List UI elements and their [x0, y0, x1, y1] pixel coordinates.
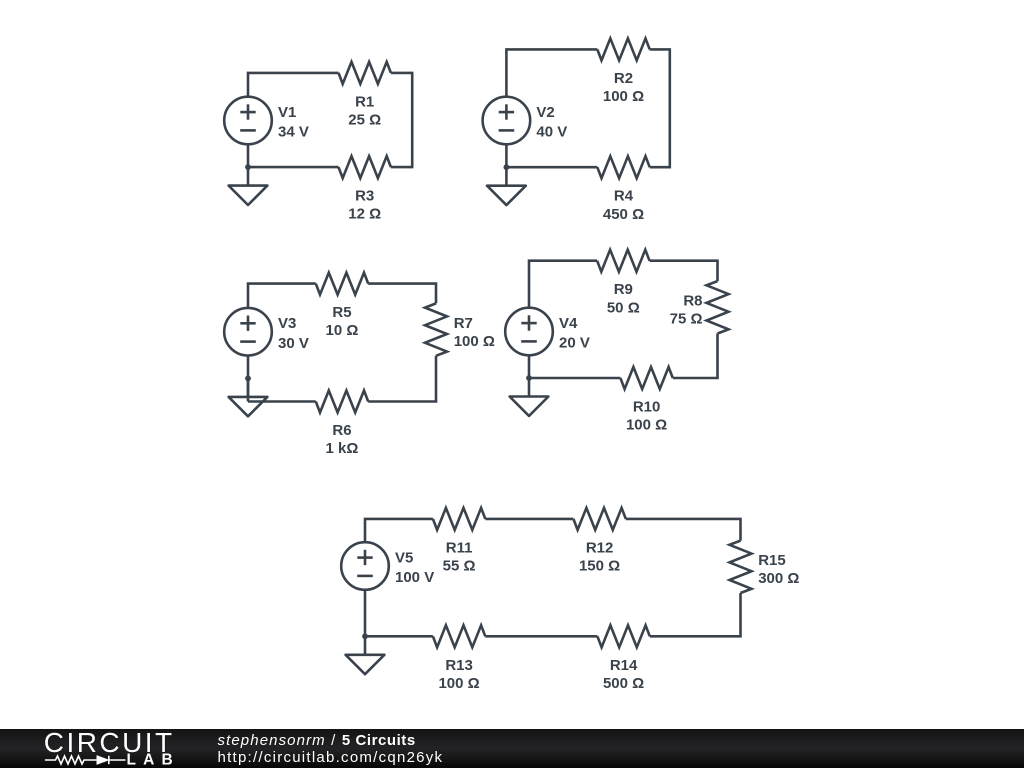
- svg-text:V4: V4: [559, 315, 578, 332]
- svg-text:R14: R14: [610, 657, 638, 674]
- svg-text:12 Ω: 12 Ω: [348, 206, 381, 223]
- svg-text:R3: R3: [355, 188, 374, 205]
- svg-text:300 Ω: 300 Ω: [758, 570, 799, 587]
- svg-text:R15: R15: [758, 552, 786, 569]
- svg-text:450 Ω: 450 Ω: [603, 206, 644, 223]
- svg-text:100 Ω: 100 Ω: [626, 417, 667, 434]
- svg-text:http://circuitlab.com/cqn26yk: http://circuitlab.com/cqn26yk: [218, 749, 444, 766]
- svg-text:R12: R12: [586, 539, 614, 556]
- svg-text:75 Ω: 75 Ω: [670, 311, 703, 328]
- svg-text:R11: R11: [446, 539, 473, 556]
- svg-text:10 Ω: 10 Ω: [326, 322, 359, 339]
- svg-text:55 Ω: 55 Ω: [443, 558, 476, 575]
- svg-text:R1: R1: [355, 93, 374, 110]
- svg-text:R8: R8: [683, 293, 702, 310]
- svg-text:V1: V1: [278, 104, 296, 121]
- svg-text:500 Ω: 500 Ω: [603, 675, 644, 692]
- svg-text:20 V: 20 V: [559, 335, 590, 352]
- svg-text:R2: R2: [614, 70, 633, 87]
- svg-text:V2: V2: [536, 104, 554, 121]
- svg-text:R13: R13: [445, 657, 473, 674]
- svg-text:100 V: 100 V: [395, 569, 434, 586]
- svg-text:25 Ω: 25 Ω: [348, 112, 381, 129]
- svg-text:150 Ω: 150 Ω: [579, 558, 620, 575]
- svg-text:34 V: 34 V: [278, 124, 309, 141]
- svg-text:R7: R7: [454, 315, 473, 332]
- svg-text:R10: R10: [633, 399, 661, 416]
- svg-text:R4: R4: [614, 188, 634, 205]
- svg-text:100 Ω: 100 Ω: [603, 88, 644, 105]
- svg-text:R6: R6: [332, 422, 351, 439]
- svg-text:R5: R5: [332, 304, 351, 321]
- svg-text:1 kΩ: 1 kΩ: [326, 440, 359, 457]
- svg-text:100 Ω: 100 Ω: [454, 333, 495, 350]
- svg-text:R9: R9: [614, 281, 633, 298]
- svg-text:stephensonrm / 5 Circuits: stephensonrm / 5 Circuits: [218, 732, 416, 749]
- svg-text:V5: V5: [395, 549, 413, 566]
- svg-text:50 Ω: 50 Ω: [607, 299, 640, 316]
- svg-text:V3: V3: [278, 315, 296, 332]
- svg-text:100 Ω: 100 Ω: [438, 675, 479, 692]
- svg-text:LAB: LAB: [127, 752, 180, 769]
- svg-text:30 V: 30 V: [278, 335, 309, 352]
- svg-text:40 V: 40 V: [536, 124, 567, 141]
